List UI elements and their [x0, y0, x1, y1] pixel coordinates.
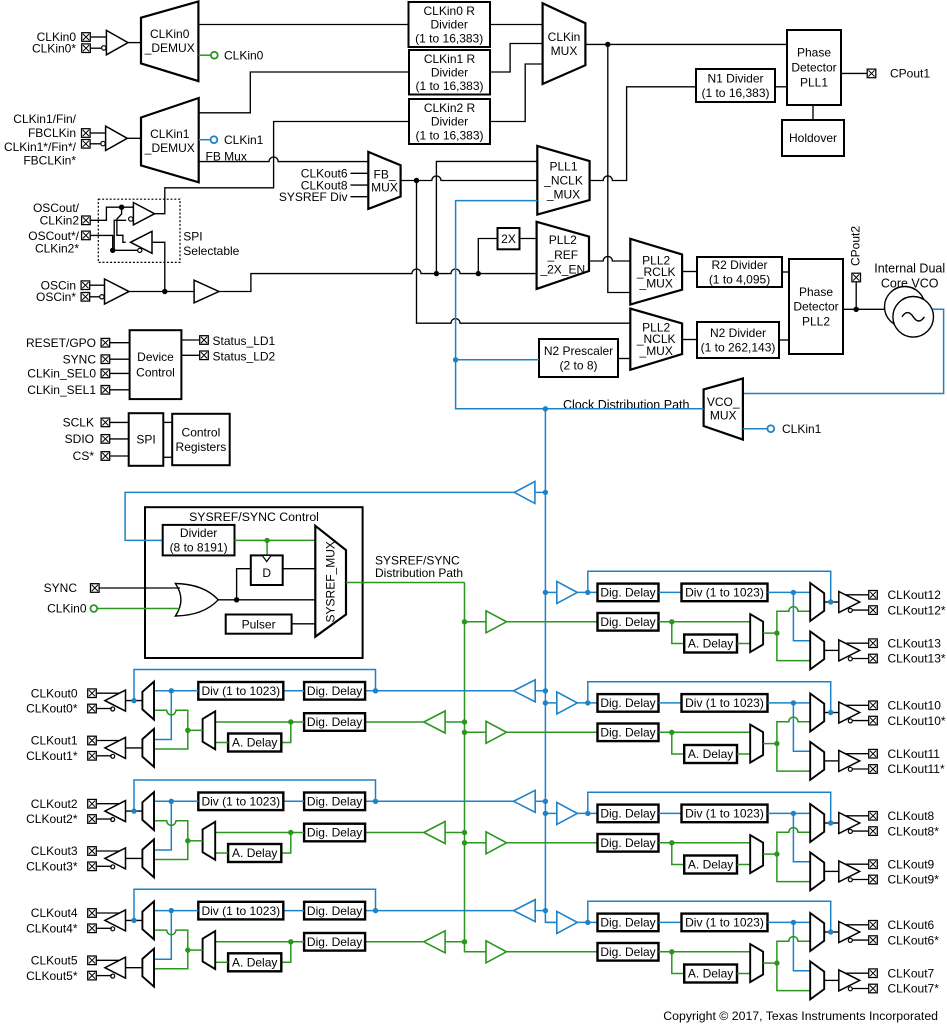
wire A Delay to A-mux CLKout2: [215, 852, 228, 854]
wire buffer CLKout2 top tap: [97, 803, 119, 805]
pad CLKout13*: [869, 654, 878, 663]
amp green feeder CLKout6: [486, 941, 507, 963]
junction green trunk to bank CLKout10: [462, 730, 467, 735]
svg-text:Div (1 to 1023): Div (1 to 1023): [685, 807, 764, 821]
buffer OSCin second: [194, 280, 219, 303]
wire A-mux out CLKout2: [188, 840, 203, 842]
wire CLKin0 to OR gate: [97, 608, 179, 610]
junction CPout2 node: [854, 307, 859, 312]
label SYNC (device): [63, 352, 97, 366]
buffer output CLKout9: [839, 861, 860, 882]
label CLKout12*: [888, 603, 946, 617]
node CLKin0 (green): [211, 52, 218, 59]
mux analog delay select CLKout0: [203, 711, 216, 749]
svg-text:A. Delay: A. Delay: [688, 967, 733, 981]
demux CLKin1_DEMUX: [141, 98, 199, 182]
box Div (1 to 1023) CLKout4: [198, 902, 283, 920]
mux CLKin MUX: [543, 3, 586, 84]
wire Div to mux CLKout0: [154, 690, 198, 692]
junction blue bypass join CLKout10: [828, 710, 833, 715]
svg-text:_DEMUX: _DEMUX: [144, 41, 195, 55]
pad CLKin1: [82, 129, 91, 138]
wire mux2 to buffer CLKout11: [824, 760, 839, 762]
amp blue feeder CLKout6: [557, 911, 578, 933]
wire green to A Delay CLKout2: [281, 833, 291, 854]
junction OR output node: [234, 597, 239, 602]
wire Div to mux CLKout4: [154, 910, 198, 912]
svg-text:CLKout4: CLKout4: [31, 906, 78, 920]
box Holdover: [782, 120, 844, 156]
svg-text:SYNC: SYNC: [63, 352, 97, 366]
svg-text:PLL2: PLL2: [549, 233, 577, 247]
pad SCLK: [101, 418, 110, 427]
box N2 Prescaler: [539, 339, 618, 377]
svg-text:CPout2: CPout2: [849, 226, 863, 266]
wire CLKin2 buffer to CLKin2 R Divider: [155, 122, 409, 214]
junction blue to mux2 tap CLKout10: [791, 700, 796, 705]
junction blue to mux2 tap CLKout12: [791, 590, 796, 595]
junction blue bypass tap CLKout2: [373, 799, 378, 804]
svg-text:A. Delay: A. Delay: [688, 858, 733, 872]
wire buffer CLKout0 top tap: [97, 692, 119, 694]
wire blue trunk to amp CLKout10: [545, 702, 556, 704]
svg-text:CLKin0*: CLKin0*: [32, 41, 76, 55]
svg-text:SYNC: SYNC: [44, 581, 78, 595]
wire buffer CLKout4 bottom tap: [97, 927, 112, 929]
svg-text:Div (1 to 1023): Div (1 to 1023): [685, 696, 764, 710]
wire buffer CLKout11 bottom tap: [852, 768, 868, 770]
amp green feeder CLKout10: [486, 721, 507, 743]
box Div (1 to 1023) CLKout10: [682, 694, 768, 712]
pad CLKout11*: [869, 765, 878, 774]
wire SYSREF_MUX green output: [346, 582, 465, 584]
wire SYNC to OR gate: [99, 587, 180, 589]
wire blue amp to Dig Delay CLKout10: [577, 702, 597, 704]
pad CLKout7: [869, 969, 878, 978]
wire D output to SYSREF_MUX: [283, 568, 316, 570]
label CLKout4: [31, 906, 78, 920]
mux analog delay select CLKout6: [750, 944, 763, 982]
wire green to mux2 CLKout11: [777, 744, 810, 772]
box Divider (8 to 8191): [163, 525, 235, 556]
wire CLKout6 stub: [351, 172, 369, 174]
svg-text:Holdover: Holdover: [789, 131, 837, 145]
wire OR node to D clock: [237, 569, 251, 600]
label OSCout*/: [28, 229, 79, 243]
svg-text:(8 to 8191): (8 to 8191): [170, 541, 228, 555]
demux CLKin0_DEMUX: [141, 2, 198, 82]
wire green to mux2 CLKout1: [154, 730, 188, 749]
pad CLKout0: [88, 689, 97, 698]
box A. Delay CLKout4: [228, 953, 281, 971]
label CLKout8: [888, 809, 935, 823]
wire CLKin0 R to CLKin MUX: [490, 24, 543, 26]
wire OSCin buffer out: [129, 291, 194, 293]
box Div (1 to 1023) CLKout8: [682, 805, 768, 823]
wire Dig Delay to Div CLKout6: [659, 921, 682, 923]
svg-text:N1 Divider: N1 Divider: [707, 71, 763, 85]
gate OR (SYNC/CLKin0): [175, 584, 218, 617]
junction green output node CLKout2: [185, 838, 190, 843]
svg-text:(1 to 16,383): (1 to 16,383): [415, 31, 483, 45]
label FB Mux: [206, 149, 247, 163]
svg-text:Dig. Delay: Dig. Delay: [600, 945, 655, 959]
svg-text:CLKin: CLKin: [548, 30, 581, 44]
mux analog delay select CLKout4: [203, 931, 216, 969]
wire mux1 to buffer CLKout10: [824, 712, 839, 714]
wire 2X to PLL2_REF_2X_EN: [520, 238, 537, 240]
pad CLKout6*: [869, 936, 878, 945]
wire N2 Prescaler to PLL2_NCLK_MUX: [618, 358, 630, 360]
wire green Dig Delay out CLKout6: [659, 951, 751, 953]
wire mux2 to buffer CLKout5: [126, 967, 143, 969]
pad RESET/GPO: [101, 338, 110, 347]
junction green trunk to bank CLKout12: [462, 619, 467, 624]
junction blue bypass tap CLKout4: [373, 908, 378, 913]
label CLKout9*: [888, 873, 940, 887]
junction green A-delay tap CLKout8: [669, 840, 674, 845]
wire mux1 to buffer CLKout12: [824, 601, 839, 603]
wire green amp to Dig Delay CLKout4: [365, 941, 424, 943]
svg-text:CLKout2: CLKout2: [31, 797, 78, 811]
wire PLL2_NCLK_MUX to N2 Divider: [682, 339, 697, 341]
wire green distribution trunk: [465, 583, 487, 952]
label FBCLKin: [28, 126, 76, 140]
wire SYSREF Div stub: [351, 196, 369, 198]
wire A-mux out CLKout10: [763, 743, 777, 745]
amp blue feeder CLKout0: [514, 680, 536, 702]
junction blue SYSREF feed: [543, 490, 548, 495]
wire buffer CLKout13 top tap: [845, 642, 868, 644]
box SYSREF/SYNC Control (outer): [145, 507, 363, 658]
svg-text:CLKout5*: CLKout5*: [26, 969, 78, 983]
wire green to mux1 CLKout8: [777, 828, 810, 854]
wire FB_MUX output to PLL1_NCLK_MUX: [401, 176, 538, 181]
wire blue trunk to amp CLKout2: [535, 800, 545, 802]
label CPout1: [890, 67, 930, 81]
svg-text:Pulser: Pulser: [242, 617, 276, 631]
mux output select CLKout7: [810, 961, 824, 999]
junction blue trunk to bank CLKout2: [543, 799, 548, 804]
wire green to mux2 CLKout9: [777, 854, 810, 882]
wire buffer CLKout11 top tap: [845, 753, 868, 755]
box R2 Divider: [697, 257, 782, 287]
wire Divider to SYSREF_MUX (green): [235, 539, 316, 541]
pad Status_LD1: [200, 336, 209, 345]
svg-text:Device: Device: [137, 350, 174, 364]
amp SYSREF divider feed (blue): [514, 481, 535, 503]
buffer output CLKout7: [839, 970, 860, 991]
amp blue feeder CLKout4: [514, 900, 536, 922]
box Dig. Delay (blue) CLKout10: [598, 694, 659, 712]
wire Device Control to Status_LD2: [181, 354, 199, 356]
wire buffer CLKout6 top tap: [845, 924, 868, 926]
junction green A-delay tap CLKout10: [669, 730, 674, 735]
box Control Registers: [172, 414, 230, 465]
wire green amp to Dig Delay CLKout8: [507, 842, 598, 844]
label OSCin*: [36, 290, 76, 304]
wire green to mux2 CLKout7: [777, 963, 810, 991]
wire blue bypass CLKout0: [134, 670, 376, 701]
mux output select CLKout5: [142, 949, 154, 987]
junction green A-delay tap CLKout2: [288, 830, 293, 835]
pad OSCout/CLKin2: [82, 216, 91, 225]
svg-text:CLKout1*: CLKout1*: [26, 749, 78, 763]
wire CLKin MUX node to PLL2_RCLK_MUX: [608, 44, 631, 292]
wire blue to mux2 CLKout3: [154, 801, 171, 850]
svg-text:Divider: Divider: [431, 18, 468, 32]
wire OSCout* pad net: [91, 235, 113, 250]
wire A-mux out CLKout8: [763, 853, 777, 855]
wire CLKin0 pad to buffer: [91, 36, 107, 38]
wire mux2 to buffer CLKout7: [824, 979, 839, 981]
junction green output node CLKout10: [774, 741, 779, 746]
label CPout2 (rotated): [849, 226, 863, 266]
wire green to mux1 CLKout2: [154, 821, 188, 841]
box A. Delay CLKout8: [684, 856, 737, 874]
wire PLL1_NCLK_MUX to N1 Divider: [590, 87, 696, 181]
svg-text:Detector: Detector: [793, 300, 838, 314]
wire CLKin_SEL1 to Device Control: [110, 389, 130, 391]
label CLKin2: [40, 214, 80, 228]
svg-text:Div (1 to 1023): Div (1 to 1023): [201, 684, 280, 698]
mux output select CLKout4: [142, 901, 154, 939]
buffer output CLKout10: [839, 702, 860, 723]
label CLKout7*: [888, 982, 940, 996]
svg-text:Div (1 to 1023): Div (1 to 1023): [201, 795, 280, 809]
svg-text:CLKout13: CLKout13: [888, 636, 942, 650]
wire mux2 to buffer CLKout3: [126, 857, 143, 859]
svg-text:CLKout10*: CLKout10*: [888, 714, 946, 728]
mux PLL2_RCLK_MUX: [630, 239, 682, 305]
svg-text:CLKin0 R: CLKin0 R: [424, 4, 476, 18]
wire OSCin to 2X doubler: [478, 239, 497, 274]
box Div (1 to 1023) CLKout12: [682, 584, 768, 602]
wire Dig Delay to Div CLKout0: [283, 690, 304, 692]
svg-text:CLKout6: CLKout6: [888, 918, 935, 932]
svg-text:FBCLKin: FBCLKin: [28, 126, 76, 140]
box A. Delay CLKout2: [228, 844, 281, 862]
svg-text:VCO_: VCO_: [707, 395, 740, 409]
pad CLKout1*: [88, 752, 97, 761]
pad CLKout2*: [88, 815, 97, 824]
label SYSREF/SYNC line2: [375, 566, 463, 580]
wire blue bypass CLKout8: [588, 792, 831, 823]
wire buffer CLKout5 bottom tap: [97, 975, 112, 977]
svg-text:SYSREF_MUX: SYSREF_MUX: [324, 541, 338, 622]
wire green to mux1 CLKout6: [777, 937, 810, 963]
svg-text:Dig. Delay: Dig. Delay: [307, 935, 362, 949]
svg-text:Dig. Delay: Dig. Delay: [307, 715, 362, 729]
junction blue bypass tap CLKout10: [585, 700, 590, 705]
label CLKout8: [301, 178, 348, 192]
wire R2 Divider to Phase Detector PLL2: [782, 271, 789, 273]
svg-text:_DEMUX: _DEMUX: [144, 141, 195, 155]
svg-text:RESET/GPO: RESET/GPO: [26, 336, 96, 350]
svg-text:CLKin1 R: CLKin1 R: [424, 52, 476, 66]
svg-text:Registers: Registers: [176, 440, 227, 454]
wire Dig Delay to Div CLKout12: [659, 591, 682, 593]
junction blue trunk to bank CLKout0: [543, 688, 548, 693]
wire OSCin to PLL1_NCLK_MUX: [436, 161, 537, 273]
wire mux2 to buffer CLKout13: [824, 649, 839, 651]
svg-text:SPI: SPI: [183, 230, 202, 244]
wire SPI to Control Registers lower: [163, 456, 172, 458]
svg-text:MUX: MUX: [371, 180, 398, 194]
svg-text:Phase: Phase: [799, 285, 833, 299]
svg-text:Dig. Delay: Dig. Delay: [307, 684, 362, 698]
wire green trunk to amp CLKout10: [465, 731, 487, 733]
amp green feeder CLKout0: [424, 711, 445, 733]
label SYSREF Div: [279, 190, 348, 204]
wire buffer CLKout6 bottom tap: [852, 939, 868, 941]
wire blue trunk to amp CLKout0: [535, 690, 545, 692]
wire CLKin1 R to CLKin MUX: [490, 44, 543, 73]
mux analog delay select CLKout2: [203, 822, 216, 860]
pad CLKout8: [869, 812, 878, 821]
wire VCO to VCO_MUX (blue): [743, 309, 944, 393]
svg-text:_MUX: _MUX: [546, 188, 580, 202]
svg-text:CLKout4*: CLKout4*: [26, 922, 78, 936]
wire SCLK to SPI: [110, 421, 129, 423]
wire CLKin MUX output: [585, 43, 787, 45]
svg-text:SDIO: SDIO: [65, 432, 94, 446]
wire A-mux out CLKout4: [188, 949, 203, 951]
box Dig. Delay (green) CLKout12: [598, 613, 659, 631]
label CLKout10: [888, 699, 942, 713]
wire blue to mux2 CLKout13: [793, 592, 810, 640]
amp green feeder CLKout8: [486, 832, 507, 854]
wire blue to N2 Prescaler: [456, 359, 539, 361]
label CLKout5*: [26, 969, 78, 983]
box Dig. Delay (blue) CLKout0: [304, 682, 365, 700]
wire Phase Detector PLL1 to CPout1: [841, 72, 867, 74]
wire blue to mux2 CLKout11: [793, 703, 810, 751]
wire blue distribution trunk: [545, 409, 556, 923]
svg-text:Dig. Delay: Dig. Delay: [600, 726, 655, 740]
box N2 Divider: [697, 322, 779, 358]
svg-text:2X: 2X: [501, 232, 516, 246]
svg-text:Dig. Delay: Dig. Delay: [600, 807, 655, 821]
divider CLKin2 R Divider: [409, 99, 490, 144]
wire green amp to Dig Delay CLKout12: [507, 621, 598, 623]
svg-text:_REF: _REF: [546, 248, 578, 262]
label SPI Selectable line2: [183, 244, 239, 258]
junction green output node CLKout12: [774, 630, 779, 635]
junction blue trunk to bank CLKout10: [543, 700, 548, 705]
svg-text:_MUX: _MUX: [639, 344, 673, 358]
pad CLKout10: [869, 701, 878, 710]
label CLKout6*: [888, 933, 940, 947]
pad CLKout9: [869, 860, 878, 869]
label Clock Distribution Path: [563, 398, 689, 412]
svg-text:N2 Divider: N2 Divider: [710, 326, 766, 340]
svg-text:Dig. Delay: Dig. Delay: [307, 795, 362, 809]
mux output select CLKout6: [810, 913, 824, 951]
svg-text:CLKout12*: CLKout12*: [888, 603, 946, 617]
wire green to A Delay CLKout8: [672, 843, 684, 865]
wire buffer CLKout3 top tap: [97, 850, 119, 852]
wire blue trunk to amp CLKout6: [545, 921, 556, 923]
mux output select CLKout11: [810, 742, 824, 780]
svg-text:Internal Dual: Internal Dual: [874, 262, 945, 276]
wire PLL2_REF_2X_EN to PLL2_RCLK_MUX: [589, 256, 630, 261]
pad SYNC (sysref): [91, 584, 100, 593]
wire buffer CLKout8 top tap: [845, 815, 868, 817]
svg-text:FBCLKin*: FBCLKin*: [23, 154, 76, 168]
wire green amp to Dig Delay CLKout2: [365, 832, 424, 834]
label SYSREF/SYNC Control title: [189, 510, 319, 524]
svg-text:CS*: CS*: [73, 449, 95, 463]
pad CLKout12: [869, 591, 878, 600]
box A. Delay CLKout12: [684, 635, 737, 653]
amp green feeder CLKout2: [424, 822, 445, 844]
wire A Delay to A-mux CLKout10: [737, 753, 750, 755]
wire buffer CLKout1 top tap: [97, 740, 119, 742]
junction OSCin line to 2X: [476, 271, 481, 276]
label SDIO: [65, 432, 94, 446]
wire blue bypass CLKout4: [134, 889, 376, 920]
buffer output CLKout3: [105, 848, 126, 869]
label SPI Selectable line1: [183, 230, 202, 244]
wire green trunk to amp CLKout6: [465, 951, 487, 953]
label CLKout8*: [888, 824, 940, 838]
pad Status_LD2: [200, 351, 209, 360]
junction OSCout* net: [110, 248, 115, 253]
wire A Delay to A-mux CLKout4: [215, 961, 228, 963]
wire blue amp to Dig Delay CLKout4: [365, 910, 513, 912]
wire buffer CLKout7 bottom tap: [852, 988, 868, 990]
wire Device Control to Status_LD1: [181, 339, 199, 341]
svg-text:Div (1 to 1023): Div (1 to 1023): [685, 586, 764, 600]
junction green output node CLKout0: [185, 728, 190, 733]
svg-text:Dig. Delay: Dig. Delay: [600, 836, 655, 850]
svg-text:Detector: Detector: [791, 61, 836, 75]
pad CLKout0*: [88, 704, 97, 713]
box Pulser: [226, 615, 292, 634]
wire CLKout8 stub: [351, 184, 369, 186]
svg-text:Selectable: Selectable: [183, 244, 239, 258]
pad SYNC: [101, 355, 110, 364]
svg-text:CLKout2*: CLKout2*: [26, 812, 78, 826]
svg-text:SPI: SPI: [136, 433, 155, 447]
svg-text:A. Delay: A. Delay: [232, 956, 277, 970]
pad CLKout8*: [869, 827, 878, 836]
amp blue feeder CLKout8: [557, 802, 578, 824]
label CLKout1: [31, 734, 78, 748]
wire OSCout pad net: [91, 207, 134, 220]
wire SDIO to SPI: [110, 438, 129, 440]
junction green A-delay tap CLKout4: [288, 939, 293, 944]
junction blue bypass tap CLKout8: [585, 811, 590, 816]
wire OSCin to PLL2 reference line: [219, 269, 537, 292]
svg-text:CLKin_SEL0: CLKin_SEL0: [27, 367, 96, 381]
wire buffer CLKout3 bottom tap: [97, 865, 112, 867]
mux VCO_MUX: [704, 379, 743, 440]
wire OSCout net to OSCout buffer output: [117, 207, 126, 242]
label CLKout0: [31, 686, 78, 700]
label CLKin0 net: [224, 48, 264, 62]
label CLKout6: [301, 167, 348, 181]
wire blue bypass CLKout10: [588, 682, 831, 713]
svg-text:(1 to 4,095): (1 to 4,095): [709, 272, 770, 286]
wire SYNC to Device Control: [110, 358, 130, 360]
wire Div to mux CLKout12: [768, 591, 811, 593]
svg-text:SYSREF/SYNC Control: SYSREF/SYNC Control: [189, 510, 319, 524]
junction blue bypass tap CLKout0: [373, 688, 378, 693]
wire green to A Delay CLKout6: [672, 952, 684, 974]
wire divider node to D flip-flop: [266, 540, 268, 555]
